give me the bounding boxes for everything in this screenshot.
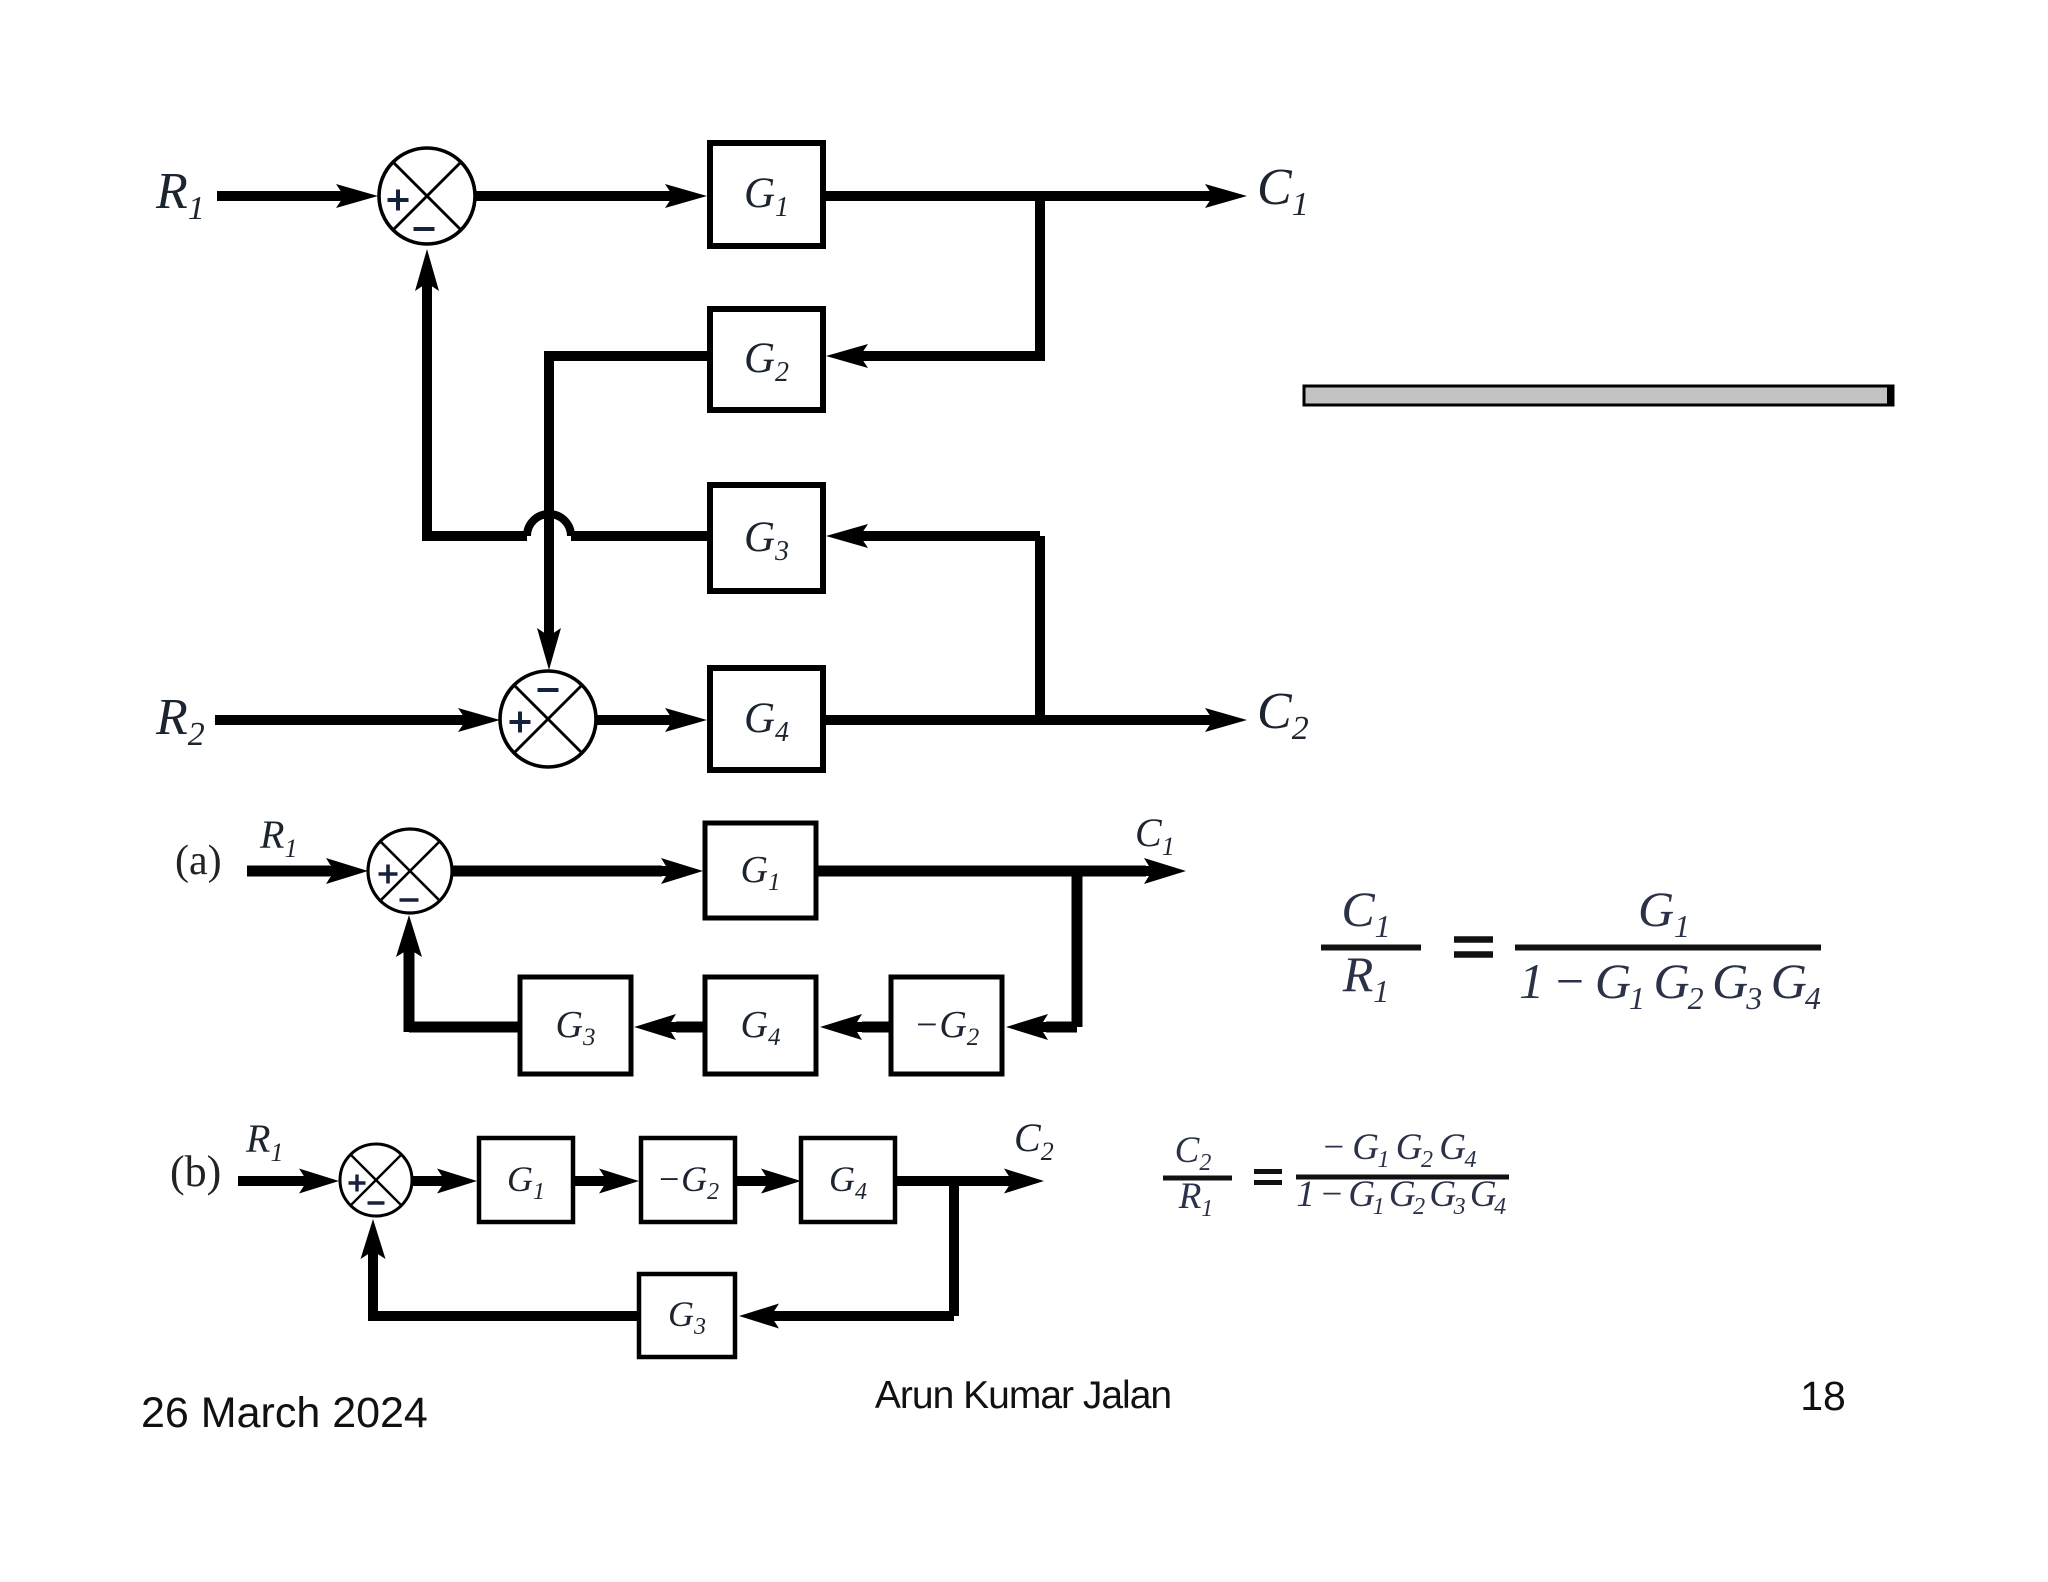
- svg-text:C1​: C1​: [1341, 881, 1390, 944]
- wire R1 to SJa: [247, 858, 368, 884]
- svg-text:− G1​ G2​ G4​: − G1​ G2​ G4​: [1321, 1127, 1476, 1173]
- block G1: [710, 143, 823, 246]
- wire C2 branch up to G3: [826, 524, 1040, 725]
- svg-text:C1: C1: [1135, 810, 1175, 861]
- svg-text:R2: R2: [155, 689, 205, 753]
- block -G2 (b): [641, 1138, 735, 1222]
- svg-text:Arun Kumar Jalan: Arun Kumar Jalan: [875, 1374, 1171, 1417]
- svg-text:26 March 2024: 26 March 2024: [141, 1389, 428, 1437]
- block G4 (b): [801, 1138, 895, 1222]
- svg-text:C2​: C2​: [1175, 1130, 1212, 1176]
- wire G4b to C2b: [895, 1169, 1044, 1194]
- svg-text:C2: C2: [1257, 683, 1309, 747]
- block G4 (a): [705, 977, 816, 1074]
- wire G4a to G3a: [634, 1014, 705, 1040]
- wire C1a branch down to -G2a: [1006, 871, 1077, 1040]
- block G1 (b): [479, 1138, 573, 1222]
- block G4: [710, 668, 823, 770]
- block G1 (a): [705, 823, 816, 918]
- svg-text:(b): (b): [170, 1147, 221, 1196]
- summing junction SJb: [340, 1144, 412, 1216]
- wire -G2b to G4b: [735, 1169, 801, 1194]
- svg-text:1 − G1​ G2​ G3​ G4​: 1 − G1​ G2​ G3​ G4​: [1296, 1174, 1506, 1220]
- svg-text:1 − G1​ G2​ G3​ G4​: 1 − G1​ G2​ G3​ G4​: [1519, 953, 1821, 1016]
- block G3 (a): [520, 977, 631, 1074]
- summing junction SJ2: [500, 671, 596, 767]
- wire R1 to SJ1: [217, 184, 378, 208]
- svg-text:R1: R1: [155, 163, 205, 227]
- block G3: [710, 485, 823, 591]
- svg-text:R1: R1: [259, 812, 297, 863]
- block G2: [710, 309, 823, 410]
- wire R2 to SJ2: [215, 708, 500, 732]
- wire R1 to SJb: [238, 1169, 339, 1194]
- equation C2/R1 = -G1G2G4/(1-G1G2G3G4): [1163, 1127, 1509, 1222]
- wire SJa to G1a: [452, 858, 703, 884]
- svg-text:G1​: G1​: [1638, 881, 1690, 944]
- summing junction SJ1: [379, 148, 475, 244]
- wire G3b to SJb: [361, 1219, 640, 1321]
- svg-text:18: 18: [1800, 1373, 1846, 1419]
- separator bar: [1304, 386, 1893, 405]
- wire G2 to SJ2 (down, crosses under hop): [537, 351, 710, 670]
- wire -G2a to G4a: [820, 1014, 891, 1040]
- wire G3a to SJa: [396, 915, 520, 1032]
- wire G1 to C1: [823, 184, 1247, 208]
- wire SJb to G1b: [412, 1169, 477, 1194]
- svg-text:R1​: R1​: [1178, 1176, 1214, 1222]
- block G3 (b): [639, 1274, 735, 1357]
- wire G4 to C2: [823, 708, 1247, 732]
- wire C1 branch down to G2: [826, 191, 1045, 368]
- svg-text:C1: C1: [1257, 159, 1309, 223]
- svg-text:R1​: R1​: [1342, 946, 1390, 1009]
- wire G1a to C1a: [816, 858, 1186, 884]
- equation C1/R1 = G1/(1-G1G2G3G4): [1321, 881, 1821, 1016]
- wire SJ1 to G1: [475, 184, 707, 208]
- svg-text:(a): (a): [175, 838, 222, 884]
- summing junction SJa: [368, 829, 452, 913]
- wire G1b to -G2b: [573, 1169, 639, 1194]
- block -G2 (a): [891, 977, 1002, 1074]
- wire G3 to SJ1 (with hop over G2 wire): [415, 249, 710, 541]
- wire C2b branch down to G3b: [739, 1181, 954, 1329]
- svg-text:R1: R1: [245, 1116, 283, 1167]
- wire SJ2 to G4: [596, 708, 707, 732]
- svg-text:C2: C2: [1014, 1115, 1054, 1166]
